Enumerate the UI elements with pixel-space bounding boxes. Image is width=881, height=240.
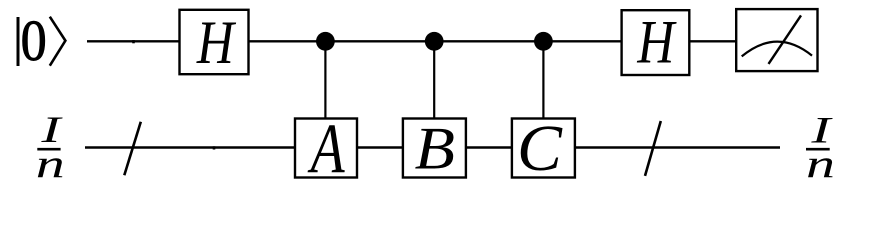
control dot 3 — [534, 32, 553, 51]
svg-text:n: n — [36, 141, 65, 185]
label I/n right — [806, 110, 835, 186]
measurement meter — [736, 9, 817, 71]
gate H2 — [622, 9, 690, 76]
svg-text:0: 0 — [21, 8, 47, 72]
svg-text:C: C — [517, 113, 563, 185]
control wire 3 — [542, 41, 544, 120]
label I/n left — [36, 110, 65, 186]
gate B — [403, 115, 466, 182]
control dot 1 — [316, 32, 335, 51]
ket |0> label — [18, 8, 65, 72]
control dot 2 — [425, 32, 444, 51]
slash left (bus n) — [124, 122, 141, 175]
slash right (bus n) — [645, 121, 661, 176]
svg-text:B: B — [415, 115, 455, 182]
wire joint nub bottom — [213, 146, 216, 149]
control wire 2 — [433, 41, 435, 120]
gate A — [295, 109, 357, 188]
svg-text:H: H — [196, 10, 237, 77]
svg-text:n: n — [806, 141, 835, 185]
gate H1 — [180, 10, 249, 77]
svg-text:H: H — [637, 9, 678, 76]
wire q0 (top qubit wire) — [87, 40, 736, 42]
control wire 1 — [324, 41, 326, 120]
wire qn (bottom register wire) — [85, 146, 780, 148]
wire joint nub top — [132, 40, 135, 43]
gate C — [512, 113, 575, 185]
svg-text:A: A — [307, 109, 345, 186]
